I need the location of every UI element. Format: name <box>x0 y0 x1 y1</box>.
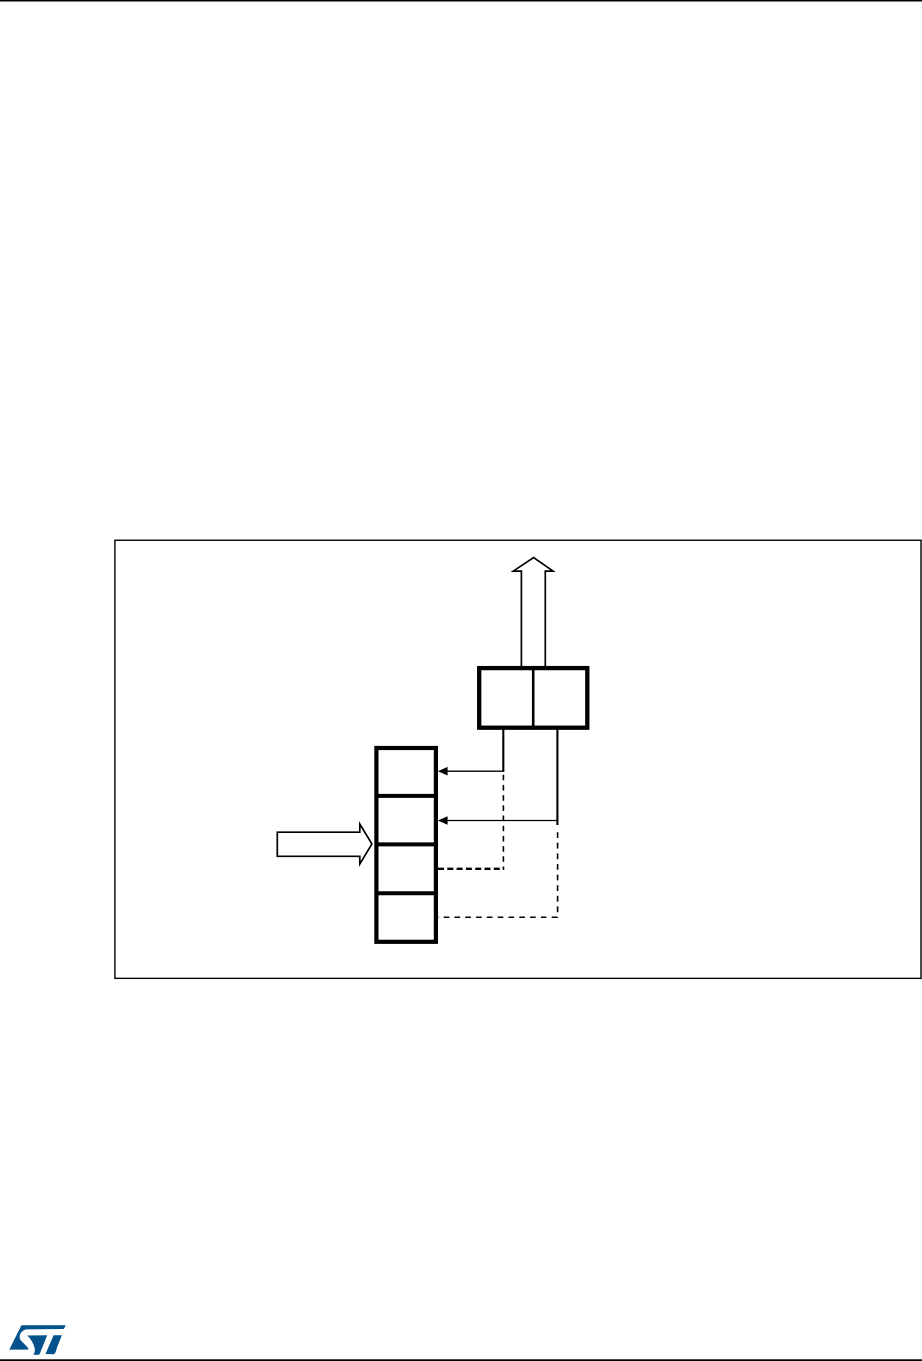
ST logo: T stem slash <box>46 1335 62 1354</box>
footer rule <box>0 1359 922 1361</box>
arrowhead into stack cell 1 <box>438 767 448 776</box>
dashed wire: horizontal into stack cell 3 (thick) <box>438 868 504 870</box>
register box divider <box>532 668 535 728</box>
input arrow (outline block arrow, pointing right) <box>277 824 372 864</box>
ST logo: S middle funnel <box>27 1335 47 1355</box>
wire: left cell vertical drop <box>502 728 504 771</box>
header rule <box>0 0 922 2</box>
figure frame <box>115 540 921 978</box>
wire: arrow line into stack cell 2 <box>447 820 559 822</box>
stack divider 3 <box>375 891 437 895</box>
stack divider 2 <box>375 842 437 846</box>
wire: arrow line into stack cell 1 <box>447 770 505 772</box>
up arrow (outline block arrow) <box>513 558 553 668</box>
register box (two cells) <box>479 668 587 728</box>
stack of four boxes <box>376 748 436 942</box>
dashed wire: vertical from cell1 corner <box>502 773 504 870</box>
dashed wire: vertical from cell2 corner <box>557 830 559 918</box>
ST logo: S swoosh with top bar <box>9 1325 65 1349</box>
stack divider 1 <box>375 794 437 798</box>
dashed wire: horizontal into stack cell 4 (thin) <box>438 916 559 918</box>
wire: right cell vertical drop <box>556 728 558 825</box>
arrowhead into stack cell 2 <box>438 816 448 825</box>
